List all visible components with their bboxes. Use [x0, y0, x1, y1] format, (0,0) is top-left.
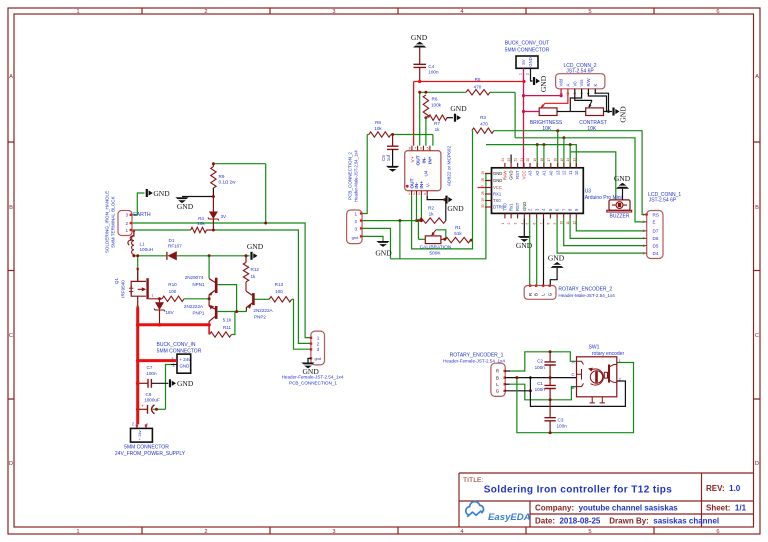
svg-text:BUCK_CONV_OUT: BUCK_CONV_OUT: [505, 41, 549, 47]
svg-text:100k: 100k: [431, 103, 442, 108]
svg-text:RST: RST: [515, 170, 520, 179]
svg-text:D: D: [755, 461, 759, 467]
svg-text:16: 16: [554, 158, 558, 162]
svg-text:DTR0: DTR0: [493, 205, 505, 210]
svg-text:3: 3: [317, 347, 320, 352]
svg-text:10: 10: [574, 170, 579, 175]
svg-text:GND: GND: [509, 171, 514, 180]
svg-text:19: 19: [533, 158, 537, 162]
svg-text:B: B: [572, 385, 575, 390]
svg-text:1: 1: [317, 336, 320, 341]
svg-text:22: 22: [514, 158, 518, 162]
wire gnd pin to ground: [362, 236, 383, 241]
wire green row4 (to buzzer): [570, 152, 616, 201]
svg-text:R13: R13: [275, 282, 284, 287]
wire encoder1 B to SW1 C (black): [505, 377, 576, 379]
svg-text:BUCK_CONV_IN: BUCK_CONV_IN: [157, 342, 196, 348]
svg-text:CONTRAST: CONTRAST: [579, 120, 607, 126]
svg-text:7: 7: [414, 146, 416, 150]
svg-text:1k: 1k: [435, 127, 441, 132]
svg-text:IN+: IN+: [428, 156, 434, 164]
svg-text:1uf: 1uf: [386, 154, 391, 161]
svg-text:C: C: [9, 333, 13, 339]
svg-text:BRIGHTNESS: BRIGHTNESS: [530, 120, 563, 126]
svg-text:n: n: [145, 423, 149, 425]
svg-text:C4: C4: [428, 64, 434, 69]
svg-text:1: 1: [518, 73, 522, 75]
svg-text:B: B: [755, 205, 759, 211]
svg-text:4: 4: [643, 237, 645, 241]
Q1 gate wire to R10: [149, 298, 162, 300]
wire encoder1 L to SW1 B: [505, 383, 509, 385]
wire PCB_CONNECTION_2 pin3 row: [362, 228, 390, 258]
wire pin5/pin6 to rotary encoder 2: [529, 218, 531, 285]
svg-text:G: G: [547, 292, 552, 296]
wire EARTH pin1 to R4: [133, 229, 191, 231]
svg-text:51k: 51k: [454, 231, 462, 236]
wire EARTH pin2 net to PCB_CONNECTION_1 pin1: [133, 223, 311, 338]
svg-text:Header-Female-JST-2.54_1x4: Header-Female-JST-2.54_1x4: [282, 375, 344, 380]
wire PCB_CONNECTION_2 pin2 row: [362, 220, 419, 222]
svg-text:C3: C3: [558, 418, 564, 423]
svg-text:GND: GND: [450, 104, 467, 113]
wire op-amp pin2/pin3 to R2 row: [416, 196, 418, 221]
svg-text:Date: 2018-08-25 Drawn By:: Date: 2018-08-25 Drawn By: sasiskas chan…: [535, 517, 719, 526]
svg-text:2N2222A: 2N2222A: [253, 308, 273, 313]
svg-text:V+: V+: [410, 156, 416, 162]
svg-text:Sheet: 1/1: Sheet: 1/1: [706, 504, 747, 513]
svg-text:5: 5: [588, 9, 591, 15]
svg-text:18: 18: [540, 158, 544, 162]
svg-text:20: 20: [526, 158, 530, 162]
svg-text:D5: D5: [653, 243, 659, 248]
svg-text:L1: L1: [140, 241, 146, 246]
resistor R8 10k: [367, 134, 369, 136]
red V+ rail: [414, 81, 524, 83]
svg-text:2: 2: [126, 221, 129, 226]
svg-text:RX1: RX1: [493, 192, 502, 197]
svg-text:2: 2: [525, 73, 529, 75]
svg-text:2: 2: [643, 220, 645, 224]
zener diode 3V: [212, 197, 214, 212]
svg-text:ROTARY_ENCODER_2: ROTARY_ENCODER_2: [558, 287, 612, 293]
svg-text:2: 2: [355, 219, 358, 224]
resistor R13 100: [269, 297, 292, 302]
svg-text:+ 24v: + 24v: [137, 430, 142, 440]
buzzer: [609, 200, 630, 210]
resistor R10 100: [162, 296, 184, 301]
svg-text:5MM CONNECTOR: 5MM CONNECTOR: [124, 445, 169, 451]
svg-text:R5: R5: [475, 77, 481, 82]
svg-text:3: 3: [355, 226, 358, 231]
svg-text:3: 3: [643, 229, 645, 233]
wire big green loop to SW1 pin1: [517, 363, 634, 433]
svg-text:TITLE:: TITLE:: [463, 477, 484, 484]
svg-text:24V_FROM_POWER_SUPPLY: 24V_FROM_POWER_SUPPLY: [115, 451, 186, 457]
svg-text:B: B: [534, 293, 539, 296]
base wires NPN1/PNP1: [218, 285, 237, 312]
connector EARTH (soldering iron handle terminal block): [118, 211, 132, 236]
svg-text:Vss: Vss: [579, 80, 584, 87]
resistor R6 100k: [423, 95, 428, 118]
svg-text:5MM CONNECTOR: 5MM CONNECTOR: [505, 47, 550, 53]
ground symbol below Arduino: [518, 236, 531, 238]
power bus (thick red): [136, 308, 139, 425]
svg-text:+: +: [141, 403, 144, 408]
svg-text:R10: R10: [168, 282, 177, 287]
svg-text:SW1: SW1: [589, 345, 600, 351]
svg-text:REV: 1.0: REV: 1.0: [706, 484, 741, 493]
wire R5 right down to row2: [514, 92, 516, 138]
svg-text:Header-Male-JST-2.54_1x4: Header-Male-JST-2.54_1x4: [354, 150, 359, 202]
svg-text:R9: R9: [219, 174, 225, 179]
svg-text:R4: R4: [198, 216, 204, 221]
ground flag at BUCK_CONV_OUT: [533, 77, 535, 85]
svg-text:2N29074: 2N29074: [185, 275, 204, 280]
svg-text:30: 30: [481, 204, 485, 208]
svg-text:gnd: gnd: [314, 356, 321, 361]
zener diode 18V: [159, 299, 161, 303]
svg-text:18V: 18V: [166, 310, 175, 315]
svg-text:5: 5: [588, 529, 591, 535]
svg-text:100: 100: [275, 289, 283, 294]
svg-text:29: 29: [481, 198, 485, 202]
connector PCB_CONNECTION_1: [311, 331, 325, 365]
svg-text:24: 24: [501, 158, 505, 162]
capacitor C4 100n: [419, 47, 421, 64]
svg-text:GND: GND: [539, 75, 548, 92]
svg-text:GND: GND: [493, 171, 502, 176]
svg-text:GND: GND: [177, 202, 194, 211]
svg-text:gnd: gnd: [352, 235, 359, 240]
svg-text:15: 15: [560, 158, 564, 162]
svg-text:100n: 100n: [557, 424, 568, 429]
wire net row2 (thermocouple gnd): [399, 221, 401, 259]
svg-text:AD822 or MCP602: AD822 or MCP602: [447, 146, 453, 187]
wire green row1 (R3 to LCD RS / Arduino): [494, 131, 645, 215]
svg-text:TX0: TX0: [493, 198, 501, 203]
svg-text:Company: youtube channel sasi: Company: youtube channel sasiskas: [535, 504, 678, 513]
LCD_CONN_2 pin wires: [524, 89, 562, 96]
svg-text:100uH: 100uH: [140, 247, 154, 252]
potentiometer BRIGHTNESS 10K: [539, 108, 557, 116]
wire BUCK_CONV_IN gnd pin: [166, 365, 176, 410]
svg-text:PCB_CONNECTION_2: PCB_CONNECTION_2: [348, 152, 353, 200]
svg-text:R2: R2: [428, 205, 434, 210]
svg-text:D6: D6: [653, 236, 659, 241]
svg-text:R: R: [528, 293, 533, 296]
IC U3 Arduino Pro Mini: [492, 168, 584, 214]
wire encoder1 G to SW1 pin2 (black): [505, 390, 530, 392]
svg-text:ru: ru: [131, 422, 135, 425]
ground symbol below PCB_CONNECTION_1: [301, 363, 314, 365]
svg-text:5MM TERMINAL BLOCK: 5MM TERMINAL BLOCK: [111, 195, 116, 247]
svg-text:2: 2: [619, 378, 621, 382]
svg-text:EasyEDA: EasyEDA: [488, 512, 531, 523]
svg-text:8: 8: [546, 223, 550, 225]
svg-text:rotary encoder: rotary encoder: [592, 351, 625, 357]
svg-text:RS: RS: [653, 212, 659, 217]
ground flag right of D1: [250, 252, 252, 260]
resistor R9 0.1ohm 2w: [212, 164, 214, 167]
svg-text:B: B: [9, 205, 13, 211]
wire encoder1 R to SW1 A: [505, 370, 510, 372]
svg-text:A: A: [566, 84, 571, 87]
svg-text:8: 8: [409, 146, 411, 150]
svg-text:2: 2: [204, 529, 207, 535]
wire D1 node to GND flag row: [209, 255, 250, 257]
svg-text:GND: GND: [375, 249, 392, 258]
svg-text:26: 26: [481, 178, 485, 182]
wires pins 9-12 to LCD_CONN_1: [576, 218, 645, 231]
svg-text:1: 1: [619, 359, 621, 363]
svg-text:5.1k: 5.1k: [223, 318, 232, 323]
wire stub above Arduino GND top pin: [510, 155, 512, 163]
svg-text:1: 1: [355, 212, 358, 217]
svg-text:1: 1: [501, 223, 505, 225]
svg-text:Q1: Q1: [114, 277, 119, 284]
svg-text:GND: GND: [247, 242, 264, 251]
svg-text:U4: U4: [424, 170, 429, 176]
title block: [459, 473, 754, 527]
svg-text:10k: 10k: [374, 126, 382, 131]
ground flag right of CONTRAST: [612, 108, 614, 116]
wire R8 left down to PCB_CONNECTION_2 pin1: [362, 135, 367, 214]
connector ROTARY_ENCODER_2: [524, 286, 556, 300]
svg-text:BUZZER: BUZZER: [610, 214, 630, 220]
svg-text:12: 12: [562, 170, 567, 175]
svg-text:R/W: R/W: [586, 78, 591, 86]
svg-text:2: 2: [204, 9, 207, 15]
svg-text:VCC: VCC: [493, 185, 502, 190]
svg-text:SOLDERING_IRON_HANDLE: SOLDERING_IRON_HANDLE: [105, 191, 110, 253]
wire R4 node to PCB_CONNECTION_1 pin2: [213, 230, 311, 343]
svg-text:6: 6: [716, 9, 719, 15]
svg-text:1: 1: [126, 228, 129, 233]
svg-text:PNP2: PNP2: [254, 314, 266, 319]
svg-text:IRF9540: IRF9540: [120, 280, 125, 298]
potentiometer CONTRAST 10K: [586, 108, 604, 116]
wire op-amp OUT2 row / R5 net: [419, 92, 421, 145]
svg-text:6: 6: [716, 529, 719, 535]
svg-text:R6: R6: [432, 97, 438, 102]
svg-text:6: 6: [643, 251, 645, 255]
wire op-amp OUT (pin1) to R1/R3 net: [412, 131, 473, 249]
wire R9 bottom to GND flag (black): [212, 188, 214, 197]
svg-text:GND: GND: [548, 254, 565, 263]
svg-text:1: 1: [408, 192, 410, 196]
svg-text:GND: GND: [614, 174, 631, 183]
inductor L1 100uH: [133, 230, 135, 232]
svg-text:C1: C1: [537, 381, 543, 386]
ground flag right of C7: [169, 379, 171, 387]
svg-text:4: 4: [424, 192, 426, 196]
svg-text:11: 11: [568, 170, 573, 175]
svg-text:D1: D1: [169, 238, 175, 243]
svg-text:3: 3: [332, 9, 335, 15]
svg-text:C: C: [755, 333, 759, 339]
svg-text:R11: R11: [223, 325, 232, 330]
svg-text:R1: R1: [455, 225, 461, 230]
svg-text:0.1Ω 2w: 0.1Ω 2w: [219, 180, 237, 185]
svg-text:C2: C2: [537, 358, 543, 363]
svg-text:E: E: [653, 220, 656, 225]
wire R2 right up to gnd node: [445, 200, 447, 221]
wire PNP2 base to R13: [255, 298, 270, 300]
svg-text:PCB_CONNECTION_1: PCB_CONNECTION_1: [289, 381, 337, 386]
svg-text:B: B: [496, 375, 499, 380]
svg-text:A1: A1: [542, 170, 547, 176]
svg-text:1: 1: [76, 9, 79, 15]
svg-text:OUT: OUT: [416, 155, 422, 165]
wire BUCK_CONV_OUT pin2 to GND flag: [531, 68, 533, 81]
svg-text:NPN1: NPN1: [192, 282, 205, 287]
ground flag right of R7: [454, 114, 456, 122]
svg-text:R12: R12: [251, 267, 260, 272]
svg-text:1k: 1k: [429, 211, 435, 216]
svg-text:Vdd: Vdd: [559, 78, 564, 86]
svg-text:Rs1: Rs1: [509, 203, 514, 211]
svg-text:A: A: [572, 359, 575, 364]
svg-text:3: 3: [418, 192, 420, 196]
capacitor C5 1uf: [392, 135, 394, 146]
svg-text:470: 470: [480, 121, 488, 126]
svg-text:IN-: IN-: [421, 157, 427, 164]
svg-text:D4: D4: [653, 251, 659, 256]
svg-text:VCC: VCC: [522, 171, 527, 180]
wire L1/D1 row: [134, 255, 167, 257]
ground symbol below C5: [386, 166, 399, 168]
svg-text:100n: 100n: [146, 371, 157, 376]
svg-text:1k: 1k: [251, 274, 257, 279]
svg-text:GND: GND: [180, 364, 190, 369]
svg-text:5: 5: [427, 146, 429, 150]
svg-text:RST: RST: [515, 202, 520, 211]
resistor R5 470: [466, 90, 490, 95]
svg-text:GND: GND: [153, 189, 170, 198]
wire EARTH pin3 to GND flag: [133, 193, 145, 215]
svg-text:R7: R7: [434, 121, 440, 126]
svg-text:100: 100: [169, 289, 177, 294]
svg-text:C6: C6: [146, 392, 152, 397]
svg-text:470: 470: [474, 85, 482, 90]
wire calibration left to R2 junction: [417, 221, 419, 240]
svg-text:GND: GND: [177, 379, 194, 388]
svg-text:Soldering Iron controller for: Soldering Iron controller for T12 tips: [484, 485, 673, 496]
svg-text:1: 1: [152, 294, 154, 298]
svg-text:3: 3: [332, 529, 335, 535]
ground flag left of R9: [175, 197, 188, 199]
svg-text:V0: V0: [572, 81, 577, 87]
svg-text:6: 6: [420, 146, 422, 150]
svg-text:D7: D7: [653, 229, 659, 234]
diode D1 RF107: [166, 252, 168, 260]
svg-text:D: D: [9, 461, 13, 467]
wire green row2 (R5 to LCD E / Arduino): [515, 138, 645, 222]
svg-text:GND: GND: [447, 204, 464, 213]
ground flag (EARTH shield GND): [146, 189, 148, 197]
svg-text:GND: GND: [411, 33, 428, 42]
svg-text:25: 25: [481, 171, 485, 175]
svg-text:RF107: RF107: [168, 244, 182, 249]
svg-text:100n: 100n: [428, 70, 439, 75]
svg-text:GND: GND: [619, 106, 628, 123]
svg-text:3: 3: [514, 223, 518, 225]
svg-text:100n: 100n: [535, 387, 546, 392]
ground symbol below PCB_CONNECTION_2: [376, 241, 389, 243]
svg-text:A: A: [9, 74, 13, 80]
svg-text:2: 2: [507, 223, 511, 225]
resistor R4 10k: [191, 227, 207, 232]
svg-text:13: 13: [555, 170, 560, 175]
wire op-amp pin4 to GND flag: [427, 196, 445, 200]
wire R9 top row: [213, 163, 265, 165]
connector 5MM power supply: [136, 424, 138, 426]
svg-text:+ 24v: + 24v: [180, 357, 192, 362]
capacitor C3 100n: [549, 400, 551, 418]
svg-text:5: 5: [643, 244, 645, 248]
svg-text:3: 3: [126, 213, 129, 218]
svg-text:PNP1: PNP1: [192, 311, 204, 316]
svg-text:JST-2.54 6P: JST-2.54 6P: [649, 198, 677, 204]
svg-text:RAW: RAW: [503, 170, 508, 180]
svg-text:G: G: [496, 389, 500, 394]
svg-text:C7: C7: [147, 365, 153, 370]
svg-text:V-: V-: [425, 182, 430, 187]
svg-text:A2: A2: [535, 170, 540, 176]
svg-text:GND: GND: [522, 202, 527, 211]
svg-text:1: 1: [76, 529, 79, 535]
EasyEDA logo: [466, 502, 531, 523]
svg-text:17: 17: [547, 158, 551, 162]
svg-text:R3: R3: [480, 115, 486, 120]
svg-text:2N2222A: 2N2222A: [184, 304, 204, 309]
svg-text:GND: GND: [493, 178, 502, 183]
wire pin7 (black) to rotary encoder 2: [543, 218, 545, 285]
svg-text:A0: A0: [548, 170, 553, 176]
wire green row3: [486, 145, 576, 168]
wire R13 to PCB_CONNECTION_1 pin3: [292, 299, 311, 349]
wire 5V net (crimson): [523, 68, 525, 168]
wire Arduino GND bottom pin4: [523, 218, 525, 236]
wire +24 to bus: [138, 359, 177, 362]
svg-text:14: 14: [566, 158, 570, 162]
svg-text:2: 2: [317, 341, 320, 346]
svg-text:10k: 10k: [197, 221, 205, 226]
svg-text:2: 2: [413, 192, 415, 196]
svg-text:1000uF: 1000uF: [144, 398, 160, 403]
svg-text:A: A: [755, 74, 759, 80]
resistor R7 1k: [429, 115, 448, 120]
ground flag right of op-amp pin4: [445, 196, 447, 204]
wire node: vertical from R9 top row down to pin2 net: [265, 164, 267, 223]
svg-text:C: C: [571, 372, 574, 377]
svg-text:Header-Male-JST-2.54_1x4: Header-Male-JST-2.54_1x4: [558, 293, 615, 298]
svg-text:R8: R8: [375, 120, 381, 125]
wire VCC left stub: [478, 187, 485, 189]
svg-text:R: R: [496, 369, 499, 374]
wire emitters to R11 right: [231, 312, 235, 335]
wire gnd pin to ground: [308, 358, 311, 362]
svg-text:A3: A3: [528, 170, 533, 176]
svg-text:K: K: [593, 84, 598, 87]
svg-text:100n: 100n: [535, 365, 546, 370]
svg-text:21: 21: [520, 158, 524, 162]
resistor R12 1k: [245, 256, 247, 263]
svg-text:ROTARY_ENCODER_1: ROTARY_ENCODER_1: [450, 352, 504, 358]
svg-text:3V: 3V: [221, 214, 228, 219]
svg-text:28: 28: [481, 191, 485, 195]
